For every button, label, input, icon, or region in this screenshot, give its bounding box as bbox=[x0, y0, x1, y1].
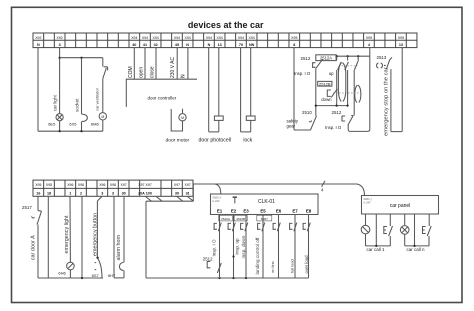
svg-text:emergency light: emergency light bbox=[64, 215, 70, 254]
wire T bbox=[353, 70, 355, 115]
svg-text:X94: X94 bbox=[206, 36, 212, 40]
svg-text:X94: X94 bbox=[142, 36, 148, 40]
svg-text:X96: X96 bbox=[99, 183, 105, 187]
svg-text:X94: X94 bbox=[249, 36, 255, 40]
contact 2512 insp bbox=[313, 59, 323, 68]
svg-text:N: N bbox=[186, 43, 189, 47]
bus mid relay bbox=[315, 105, 349, 107]
svg-text:X92: X92 bbox=[57, 36, 63, 40]
controller CLK-01 box bbox=[211, 194, 319, 215]
svg-text:13: 13 bbox=[218, 43, 222, 47]
lamp car call 1 bbox=[361, 225, 370, 234]
svg-text:E1: E1 bbox=[217, 208, 223, 213]
svg-text:car light: car light bbox=[52, 94, 57, 111]
wire photocell right bbox=[218, 48, 220, 116]
label 2512 bottom bbox=[203, 256, 213, 261]
label 6X5 bbox=[69, 122, 77, 127]
contact 2510 safety gear bbox=[309, 116, 317, 130]
label 2513 bbox=[377, 55, 387, 60]
bus bottom-mid bbox=[146, 277, 309, 279]
label car call 1 bbox=[367, 247, 386, 252]
svg-text:M: M bbox=[101, 115, 104, 119]
svg-text:open: open bbox=[139, 67, 145, 78]
wire 40 bbox=[133, 48, 135, 80]
device 2513 coil bbox=[377, 63, 386, 68]
label 2512 (lower) bbox=[332, 110, 342, 115]
label 6H7 bbox=[108, 273, 116, 278]
svg-text:car call 1: car call 1 bbox=[367, 247, 386, 252]
svg-text:3: 3 bbox=[59, 43, 61, 47]
svg-text:70: 70 bbox=[239, 43, 243, 47]
node 6S7 bbox=[96, 257, 98, 259]
tag 2510A bbox=[219, 215, 233, 221]
wire lock right bbox=[250, 48, 252, 116]
svg-text:E7: E7 bbox=[292, 208, 298, 213]
svg-text:X96: X96 bbox=[78, 183, 84, 187]
wire from terminal 3 bbox=[59, 48, 61, 114]
tag 6S57 bbox=[257, 215, 272, 221]
wire from terminal 8 bbox=[293, 48, 295, 130]
label lock bbox=[243, 138, 252, 144]
bus bottom-left bbox=[38, 130, 103, 132]
label open bbox=[139, 67, 145, 78]
door motor bracket bbox=[171, 109, 182, 131]
switch car ventilator bbox=[103, 67, 108, 79]
svg-text:X94: X94 bbox=[238, 36, 244, 40]
svg-text:31: 31 bbox=[186, 191, 190, 195]
contact 2513 bbox=[386, 57, 392, 69]
wire button call1 bbox=[389, 214, 391, 226]
wire alarm horn left bbox=[113, 196, 115, 278]
svg-text:X95: X95 bbox=[46, 183, 52, 187]
CLK pin contacts bbox=[214, 223, 310, 232]
label car door A bbox=[30, 235, 36, 260]
CLK pin wires bbox=[220, 215, 309, 279]
label up bbox=[329, 71, 334, 76]
label socket bbox=[75, 98, 80, 112]
svg-text:0..24V: 0..24V bbox=[213, 200, 220, 203]
link dashes up-contacts bbox=[342, 65, 358, 67]
label 6M6 bbox=[91, 122, 100, 127]
label door controller bbox=[148, 95, 177, 100]
CLK-01 pin labels E1 E2 E3 E5 E6 E7 E8 bbox=[217, 208, 312, 213]
svg-text:E3: E3 bbox=[243, 208, 249, 213]
lock device bbox=[246, 116, 255, 120]
wire S bbox=[347, 70, 349, 106]
contact 6S7 bbox=[95, 258, 102, 277]
wire net4 riser bbox=[192, 184, 194, 201]
label car panel bbox=[390, 203, 411, 209]
svg-text:18: 18 bbox=[47, 191, 51, 195]
relay box 2512B bbox=[318, 81, 332, 86]
motor 6M6 bbox=[99, 113, 106, 120]
wire lock left bbox=[240, 48, 242, 132]
svg-text:40: 40 bbox=[132, 43, 136, 47]
svg-text:4: 4 bbox=[368, 43, 371, 47]
svg-text:door photocell: door photocell bbox=[199, 138, 232, 144]
photocell bottom bbox=[209, 131, 219, 133]
contact arm R bbox=[338, 62, 342, 70]
wire alarm horn right bbox=[123, 196, 125, 262]
contact under 2512B bbox=[327, 89, 337, 98]
svg-text:X97: X97 bbox=[174, 183, 180, 187]
relay box 2512A bbox=[316, 55, 336, 61]
svg-text:6S57: 6S57 bbox=[261, 217, 268, 221]
svg-text:car ventilator: car ventilator bbox=[95, 87, 100, 111]
label over load bbox=[304, 255, 309, 274]
wire button calln bbox=[428, 214, 430, 226]
node junction terminal-3 branch bbox=[59, 57, 103, 59]
svg-text:NN: NN bbox=[249, 43, 255, 47]
label 6S7 bbox=[92, 273, 100, 278]
label Insp. I O (lower) bbox=[325, 125, 342, 130]
wire socket branch bbox=[81, 58, 83, 115]
wire terminal 2 down bbox=[81, 196, 83, 278]
terminal strip X95/X96/X97 (bottom) bbox=[33, 180, 193, 196]
door photocell device bbox=[214, 116, 223, 120]
wire net 4 horizontal bbox=[193, 183, 357, 185]
label car call n bbox=[407, 247, 426, 252]
svg-text:2512: 2512 bbox=[203, 256, 213, 261]
contact 2512 insp lower bbox=[342, 116, 354, 126]
svg-text:2512B: 2512B bbox=[319, 81, 331, 86]
node E2 junction bbox=[232, 255, 234, 257]
svg-text:down: down bbox=[321, 97, 332, 102]
svg-text:E8: E8 bbox=[306, 208, 312, 213]
title: devices at the car bbox=[188, 20, 264, 30]
big box left edge bbox=[145, 201, 147, 278]
car panel power text bbox=[364, 198, 373, 205]
net 4 marker bbox=[322, 181, 325, 187]
svg-text:41: 41 bbox=[143, 43, 147, 47]
svg-text:2510A: 2510A bbox=[221, 217, 230, 221]
CLK-01 power text bbox=[213, 197, 222, 204]
wire car door A lower bbox=[37, 225, 39, 279]
wire call1 middle bbox=[375, 214, 377, 246]
wire net4 to car panel bbox=[357, 184, 365, 196]
wire lamp call n bbox=[404, 214, 406, 225]
svg-text:emergency stop on the car: emergency stop on the car bbox=[384, 67, 390, 136]
bus bottom-left lower bbox=[38, 277, 103, 279]
label 2517 bbox=[22, 205, 32, 210]
wire S stub bbox=[347, 56, 349, 60]
label emergency stop on the car bbox=[384, 67, 390, 136]
svg-text:lock: lock bbox=[243, 138, 252, 144]
svg-text:16: 16 bbox=[36, 191, 40, 195]
svg-text:2512A: 2512A bbox=[320, 56, 332, 61]
label car light bbox=[52, 94, 57, 111]
svg-text:M: M bbox=[181, 116, 184, 120]
terminal strip X92/X94/X95 (top) bbox=[33, 33, 417, 48]
svg-text:3: 3 bbox=[101, 191, 103, 195]
wire safety-gear horiz bbox=[294, 129, 311, 131]
svg-text:N: N bbox=[181, 74, 187, 78]
svg-text:X95: X95 bbox=[35, 183, 41, 187]
wire emergency light bbox=[69, 196, 71, 262]
svg-text:up: up bbox=[329, 71, 334, 76]
svg-text:N: N bbox=[208, 43, 211, 47]
link dashes down-contacts bbox=[333, 92, 363, 94]
lamp 6E5 bbox=[56, 114, 63, 121]
label emergency button bbox=[93, 213, 99, 256]
svg-text:X97: X97 bbox=[121, 183, 127, 187]
svg-text:X94: X94 bbox=[153, 36, 159, 40]
collector line under strip2 bbox=[146, 200, 193, 202]
contact arm S bbox=[345, 62, 349, 70]
terminal strip 2 labels bbox=[35, 183, 191, 195]
label close bbox=[150, 66, 156, 78]
alarm horn 6H7 bbox=[114, 262, 124, 278]
svg-text:13: 13 bbox=[399, 43, 403, 47]
label emergency light bbox=[64, 215, 70, 254]
label 2510 bbox=[302, 110, 312, 115]
svg-text:E5: E5 bbox=[260, 208, 266, 213]
lock bottom bbox=[241, 131, 251, 133]
svg-text:car panel: car panel bbox=[390, 203, 411, 209]
wire socket to bus bbox=[81, 121, 83, 131]
wire N (door) bbox=[187, 48, 189, 80]
wire terminal 18 down bbox=[47, 196, 49, 278]
svg-text:6M6: 6M6 bbox=[91, 122, 100, 127]
wire photocell left bbox=[208, 48, 210, 132]
svg-text:X95: X95 bbox=[366, 36, 372, 40]
svg-text:6X5: 6X5 bbox=[69, 122, 77, 127]
svg-text:CLK-01: CLK-01 bbox=[258, 199, 275, 205]
svg-text:2510: 2510 bbox=[302, 110, 312, 115]
wire switch to motor bbox=[102, 79, 104, 113]
stubs 20A 100 30 31 bbox=[146, 197, 194, 202]
svg-text:over load: over load bbox=[304, 255, 309, 274]
svg-text:X95: X95 bbox=[398, 36, 404, 40]
svg-text:E2: E2 bbox=[231, 208, 237, 213]
label insp. up bbox=[234, 238, 239, 255]
label full load bbox=[290, 259, 295, 273]
svg-text:landing control off: landing control off bbox=[255, 237, 260, 275]
svg-text:N: N bbox=[37, 43, 40, 47]
wire photocell lower bbox=[218, 120, 220, 131]
svg-text:devices at the car: devices at the car bbox=[188, 20, 264, 30]
wire lamp calln down bbox=[404, 234, 406, 246]
svg-text:car call n: car call n bbox=[407, 247, 426, 252]
label door photocell bbox=[199, 138, 232, 144]
svg-text:emergency button: emergency button bbox=[93, 213, 99, 256]
label safety gear bbox=[287, 118, 299, 128]
label Insp. I O vertical bbox=[212, 239, 217, 257]
svg-text:6S7: 6S7 bbox=[92, 273, 100, 278]
lamp car call n bbox=[400, 226, 409, 235]
svg-text:X97: X97 bbox=[185, 183, 191, 187]
wire button call1 down bbox=[389, 236, 391, 246]
wire to net4 loop bbox=[348, 48, 370, 132]
svg-text:X92: X92 bbox=[35, 36, 41, 40]
terminal strip 1 labels bbox=[35, 36, 404, 47]
svg-text:49: 49 bbox=[175, 43, 179, 47]
svg-text:6E5: 6E5 bbox=[48, 122, 56, 127]
button car call 1 bbox=[384, 226, 393, 236]
label alarm horn bbox=[116, 235, 122, 261]
wire lock lower bbox=[250, 120, 252, 131]
wire lamp call1 down bbox=[365, 234, 367, 246]
door controller box edge bbox=[126, 79, 197, 107]
svg-text:insp. down: insp. down bbox=[241, 235, 247, 258]
label CLK-01 bbox=[258, 199, 275, 205]
svg-text:2512: 2512 bbox=[301, 56, 311, 61]
bus net up/down top bbox=[336, 55, 370, 57]
wire 2510 stub bbox=[315, 106, 317, 116]
contactor up tower bbox=[338, 63, 345, 102]
wire Q to bus bbox=[315, 68, 317, 105]
label 4 bbox=[321, 187, 324, 192]
svg-text:X94: X94 bbox=[131, 36, 137, 40]
svg-text:door motor: door motor bbox=[166, 137, 190, 143]
socket 6X5 bbox=[82, 114, 87, 121]
wire lamp to bus bbox=[59, 121, 61, 131]
lamp 6H6 bbox=[67, 262, 75, 270]
label COM bbox=[128, 66, 134, 78]
wire 49 bbox=[176, 48, 178, 80]
svg-text:2: 2 bbox=[80, 191, 82, 195]
svg-text:30: 30 bbox=[175, 191, 179, 195]
svg-text:42: 42 bbox=[154, 43, 158, 47]
label 6H6 bbox=[58, 271, 66, 276]
wire R bbox=[336, 70, 338, 106]
wire R stub bbox=[336, 56, 338, 60]
svg-text:full load: full load bbox=[290, 259, 295, 273]
wire 42 bbox=[155, 48, 157, 80]
svg-text:4: 4 bbox=[321, 187, 324, 192]
svg-text:30: 30 bbox=[122, 191, 126, 195]
svg-text:2513: 2513 bbox=[377, 55, 387, 60]
label insp. down bbox=[241, 235, 247, 258]
svg-text:8: 8 bbox=[293, 43, 295, 47]
svg-text:6H6: 6H6 bbox=[58, 271, 66, 276]
svg-text:3: 3 bbox=[112, 191, 114, 195]
svg-text:20A 100: 20A 100 bbox=[138, 191, 152, 195]
contactor down tower bbox=[355, 85, 361, 103]
svg-text:6H7: 6H7 bbox=[108, 273, 116, 278]
tag 2512B bbox=[234, 215, 247, 221]
contact arm T bbox=[354, 62, 358, 71]
svg-text:car door A: car door A bbox=[30, 235, 36, 260]
svg-text:X94: X94 bbox=[217, 36, 223, 40]
svg-text:Insp. I O: Insp. I O bbox=[212, 239, 217, 257]
label car ventilator bbox=[95, 87, 100, 111]
svg-text:on line: on line bbox=[270, 260, 275, 273]
wire motor to bus bbox=[102, 120, 104, 131]
button car call n bbox=[423, 226, 432, 236]
svg-text:insp. up: insp. up bbox=[234, 238, 239, 255]
contact 2512 E1 bbox=[207, 262, 221, 274]
wire emergency button bbox=[97, 197, 101, 258]
svg-text:close: close bbox=[150, 66, 156, 78]
svg-text:X97 X97: X97 X97 bbox=[138, 183, 151, 187]
svg-text:1: 1 bbox=[69, 191, 71, 195]
svg-text:X96: X96 bbox=[110, 183, 116, 187]
label landing control off bbox=[255, 237, 260, 275]
emergency stop bottom bbox=[391, 131, 402, 133]
door motor M bbox=[179, 114, 186, 121]
svg-text:Insp. I O: Insp. I O bbox=[325, 125, 342, 130]
svg-text:Insp. I O: Insp. I O bbox=[294, 71, 311, 76]
svg-text:door controller: door controller bbox=[148, 95, 177, 100]
label N bbox=[181, 74, 187, 78]
wire T stub bbox=[357, 56, 359, 61]
svg-text:2512B: 2512B bbox=[236, 217, 245, 221]
svg-text:X95: X95 bbox=[291, 36, 297, 40]
label door motor bbox=[166, 137, 190, 143]
label down bbox=[321, 97, 332, 102]
svg-text:X96: X96 bbox=[67, 183, 73, 187]
label on line bbox=[270, 260, 275, 273]
svg-text:alarm horn: alarm horn bbox=[116, 235, 122, 261]
car call 1 bottom bbox=[366, 245, 391, 247]
wire emergency-stop left bbox=[390, 69, 392, 132]
wire N down-left bbox=[37, 48, 39, 132]
wire 41 bbox=[144, 48, 146, 80]
svg-text:gear: gear bbox=[287, 124, 296, 129]
svg-text:E6: E6 bbox=[276, 208, 282, 213]
wire lamp call1 bbox=[365, 214, 367, 225]
label 6E5 bbox=[48, 122, 56, 127]
car panel box bbox=[362, 196, 439, 215]
svg-text:2517: 2517 bbox=[22, 205, 32, 210]
svg-text:2512: 2512 bbox=[332, 110, 342, 115]
wire car door A upper bbox=[37, 196, 39, 210]
wire terminal 13 right bbox=[401, 48, 403, 132]
svg-text:X94: X94 bbox=[185, 36, 191, 40]
wire calln middle bbox=[414, 214, 416, 246]
svg-text:230 V AC: 230 V AC bbox=[170, 56, 176, 78]
label 2512 (insp top) bbox=[301, 56, 311, 61]
branch to CLK power bbox=[215, 184, 221, 194]
wire button calln down bbox=[428, 236, 430, 246]
wire ventilator branch bbox=[102, 58, 104, 67]
svg-text:X94: X94 bbox=[174, 36, 180, 40]
car call n bottom bbox=[405, 245, 430, 247]
svg-text:socket: socket bbox=[75, 98, 80, 112]
svg-text:0..24V: 0..24V bbox=[364, 201, 371, 204]
CLK-01 antenna bbox=[233, 197, 237, 203]
svg-text:COM: COM bbox=[128, 66, 134, 78]
label Insp. I O (top) bbox=[294, 71, 311, 76]
wire 6H6 to bus bbox=[69, 270, 71, 278]
label 230 V AC bbox=[170, 56, 176, 78]
contact 2517 car door A bbox=[32, 211, 42, 225]
